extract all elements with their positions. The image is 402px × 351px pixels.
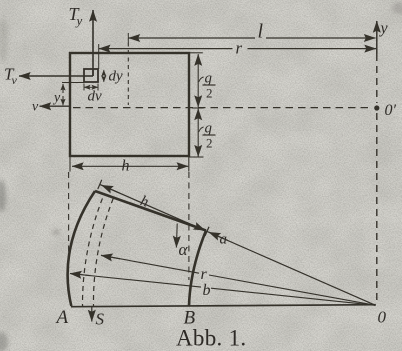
sector top edge (95, 191, 206, 231)
S arrow (91, 307, 93, 322)
svg-text:2: 2 (206, 136, 213, 151)
svg-text:S: S (96, 310, 105, 329)
svg-text:dv: dv (88, 89, 103, 105)
force arrow Tv (19, 75, 84, 77)
svg-text:y: y (379, 20, 389, 37)
svg-text:a: a (220, 232, 228, 248)
h dim arrow at T1 end (102, 185, 121, 193)
dashed arc 1 (82, 195, 104, 307)
g/2 dimension upper (197, 54, 199, 65)
svg-text:r: r (236, 39, 243, 58)
element inner vertical (92, 69, 94, 76)
element inner horizontal (84, 75, 93, 77)
svg-text:b: b (203, 282, 211, 299)
b radius line with arrow (70, 274, 201, 288)
radius line O to T1 with h dimension (100, 184, 376, 305)
svg-text:v: v (32, 100, 39, 115)
h left extension (69, 156, 71, 172)
dv dimension (83, 84, 85, 91)
svg-text:g: g (205, 71, 213, 87)
l left extension tick (127, 33, 129, 43)
sector inner arc (189, 231, 206, 307)
alpha angle arrow (175, 224, 178, 248)
dy dimension bracket (103, 70, 105, 75)
svg-text:g: g (205, 121, 213, 137)
y extension line (62, 82, 84, 84)
svg-text:Abb. 1.: Abb. 1. (176, 326, 246, 351)
g/2 leader lower (199, 127, 204, 132)
g/2 bottom tick (189, 156, 204, 158)
svg-text:2: 2 (206, 86, 213, 101)
h dimension (square) (72, 165, 130, 167)
dashed vertical at centroid distance (127, 43, 129, 106)
h right extension (188, 156, 190, 172)
v axis arrow (40, 105, 71, 107)
svg-text:h: h (122, 158, 130, 175)
g/2 middle tick (192, 107, 204, 109)
svg-text:α: α (179, 240, 189, 259)
element dv x dy (84, 69, 98, 82)
svg-text:y: y (75, 13, 83, 28)
dimension line l (129, 37, 256, 39)
g/2 leader upper (199, 77, 204, 82)
svg-text:A: A (55, 307, 69, 328)
svg-text:0: 0 (378, 308, 387, 327)
point O' (374, 105, 379, 110)
svg-text:y: y (52, 91, 61, 106)
h dim arrow at T2 end (186, 222, 205, 230)
dashed vertical below square right (188, 172, 190, 280)
r radius line with arrow (101, 255, 199, 273)
dimension line r (99, 48, 233, 50)
y axis (right) (376, 21, 378, 54)
tick at T1 end (98, 180, 102, 189)
dashed arc 2 (93, 198, 113, 306)
sector outer arc (68, 191, 95, 306)
a dimension arrow (209, 232, 228, 240)
r left extension tick (98, 44, 100, 69)
svg-text:dy: dy (109, 69, 124, 85)
g/2 dimension lower (197, 109, 199, 119)
y dimension line (62, 84, 64, 93)
dashed vertical below square left (68, 172, 70, 268)
g/2 top extension tick (189, 52, 203, 54)
svg-text:r: r (201, 266, 208, 283)
sector bottom line A-B-O (71, 305, 376, 307)
square outline (cross-section h x g) (70, 53, 189, 156)
force arrow Ty (92, 10, 94, 76)
tick at T2 (205, 227, 209, 236)
svg-text:0′: 0′ (385, 102, 397, 119)
dashed horizontal centerline (73, 107, 369, 109)
svg-text:l: l (258, 21, 264, 43)
svg-text:v: v (12, 73, 18, 87)
